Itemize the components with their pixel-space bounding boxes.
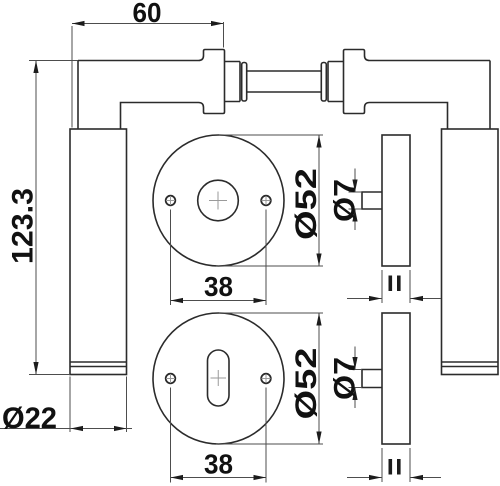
bottom knob diameter 7 bottom extension (349, 387, 363, 389)
bottom rosette diameter 52 top extension (219, 312, 323, 314)
dimension diameter 22 line (0, 428, 132, 430)
top left screw crosshair (166, 196, 175, 205)
top 11 label (389, 276, 393, 292)
svg-text:Ø22: Ø22 (2, 402, 57, 435)
bottom rosette diameter 52 bottom extension (216, 443, 323, 445)
top left screw hole (166, 196, 176, 206)
bottom side view knob (362, 370, 382, 388)
dimension 123.3 top arrow (33, 61, 38, 74)
bottom knob diameter 7 top extension (349, 369, 363, 371)
bottom rosette 38 dimension line (171, 477, 267, 479)
top side view knob (362, 192, 382, 209)
top 52 down arrow (316, 254, 321, 267)
bottom rosette keyhole slot (208, 350, 230, 406)
svg-text:Ø52: Ø52 (290, 168, 323, 240)
right hub neck (328, 62, 344, 102)
bottom rosette 38 dimension right extension (265, 388, 267, 483)
left lever arm with hub flange (78, 50, 225, 130)
dimension 123.3 top extension line (29, 60, 78, 62)
bottom side view 11 right extension (409, 448, 411, 482)
top 7 up arrow (352, 209, 357, 222)
bottom 7 up arrow (352, 388, 357, 401)
dimension 60 right extension line (223, 22, 225, 48)
top rosette spindle hole (198, 180, 239, 221)
left grip groove lines (70, 362, 127, 367)
top right screw hole (261, 196, 271, 206)
bottom diameter 7 dimension line upper (354, 347, 356, 370)
bottom left screw crosshair (166, 374, 175, 383)
top rosette face circle (153, 135, 284, 266)
bottom slot crosshair (211, 370, 227, 386)
top diameter 7 dimension line upper (354, 169, 356, 193)
dimension 22 left extension line (69, 377, 71, 433)
top rosette diameter 52 bottom extension (216, 265, 323, 267)
dimension 60 right arrow (211, 21, 224, 26)
top right screw crosshair (262, 196, 271, 205)
svg-text:38: 38 (204, 271, 233, 302)
svg-text:60: 60 (133, 0, 162, 28)
dimension 60 line (72, 23, 224, 25)
svg-text:Ø7: Ø7 (329, 179, 362, 222)
top rosette diameter 52 dimension line (318, 135, 320, 266)
dimension 60 left extension line (71, 26, 73, 128)
spindle (247, 71, 322, 92)
left grip cylinder (70, 129, 127, 375)
top rosette diameter 52 top extension (219, 134, 323, 136)
top side view 11 left extension (381, 270, 383, 303)
top rosette 38 dimension left extension (170, 210, 172, 306)
bottom 11 left line and arrow (347, 477, 382, 479)
dimension 22 left arrow (71, 426, 84, 431)
top side view 11 right extension (409, 270, 411, 303)
bottom rosette face circle (153, 313, 284, 444)
top 11 right line and arrow (411, 298, 442, 300)
right arm outer edge (489, 61, 491, 130)
bottom 11 label (389, 459, 393, 475)
bottom rosette diameter 52 dimension line (318, 313, 320, 444)
bottom rosette 38 dimension left extension (170, 388, 172, 483)
dimension 123.3 line (35, 61, 37, 375)
top rosette 38 dimension line (171, 300, 267, 302)
top knob diameter 7 top extension (349, 191, 363, 193)
svg-text:38: 38 (204, 449, 233, 480)
top hole crosshair (209, 192, 227, 210)
dimension 123.3 bottom extension line (29, 374, 70, 376)
right grip cylinder (442, 129, 499, 375)
bottom 52 up arrow (316, 313, 321, 326)
top 7 down arrow (352, 180, 357, 193)
top 38 right arrow (254, 298, 267, 303)
left arm outer edge (77, 61, 79, 130)
left hub neck (225, 62, 241, 102)
bottom side view rosette plate (382, 313, 410, 444)
top rosette 38 dimension right extension (265, 210, 267, 306)
bottom right screw crosshair (262, 374, 271, 383)
bottom left screw hole (166, 374, 176, 384)
dimension 123.3 bottom arrow (33, 362, 38, 375)
right spindle bead (321, 63, 326, 102)
bottom 7 down arrow (352, 357, 357, 370)
svg-text:Ø7: Ø7 (329, 357, 362, 400)
bottom 52 down arrow (316, 432, 321, 445)
svg-text:Ø52: Ø52 (290, 348, 323, 420)
svg-text:123.3: 123.3 (7, 188, 40, 264)
bottom side view 11 left extension (381, 448, 383, 482)
bottom 38 left arrow (171, 475, 184, 480)
top 52 up arrow (316, 135, 321, 148)
bottom right screw hole (261, 374, 271, 384)
dimension 60 left arrow (72, 21, 85, 26)
right grip groove lines (442, 362, 499, 367)
dimension 22 right extension line (126, 377, 128, 433)
top 11 left line and arrow (347, 298, 382, 300)
bottom 38 right arrow (254, 475, 267, 480)
top 38 left arrow (171, 298, 184, 303)
bottom 11 right line and arrow (411, 477, 442, 479)
left spindle bead (242, 63, 247, 102)
right lever arm with hub flange (344, 50, 491, 130)
top side view rosette plate (382, 135, 410, 266)
top knob diameter 7 bottom extension (349, 208, 363, 210)
dimension 22 right arrow (114, 426, 127, 431)
bottom diameter 7 dimension line lower (354, 388, 356, 409)
top diameter 7 dimension line lower (354, 209, 356, 230)
